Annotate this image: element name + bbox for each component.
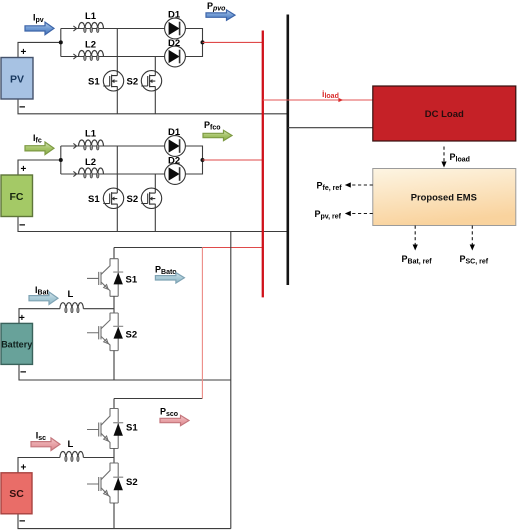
wire S1 drain (FC) — [116, 146, 118, 193]
svg-text:L2: L2 — [85, 157, 96, 168]
transistor S1 (SC) — [87, 409, 123, 449]
svg-text:S1: S1 — [88, 77, 100, 88]
wire L2 branch (FC) — [61, 173, 165, 175]
wire inductor to half-bridge node (SC) — [83, 457, 114, 459]
node PV output junction — [201, 40, 205, 44]
wire S2 source to rail (FC) — [154, 204, 156, 232]
node FC input junction — [59, 158, 63, 162]
svg-text:PSC, ref: PSC, ref — [460, 254, 489, 266]
wire D1/D2 cathodes to output node (FC) — [185, 146, 202, 174]
svg-text:L1: L1 — [85, 11, 97, 22]
svg-text:IBat: IBat — [35, 285, 49, 297]
wire FC output to DC bus (red) — [203, 159, 263, 161]
svg-text:SC: SC — [9, 488, 24, 500]
svg-text:DC Load: DC Load — [425, 109, 464, 120]
svg-text:D2: D2 — [168, 155, 180, 166]
svg-text:Ifc: Ifc — [33, 133, 42, 145]
diode D2 (FC) — [165, 164, 186, 185]
wire S2 drain (FC) — [154, 174, 156, 193]
wire top rail to S1 (SC) — [113, 399, 115, 409]
block Proposed EMS — [373, 169, 516, 226]
wire battery negative rail — [19, 364, 231, 380]
wire inductor to half-bridge node (battery) — [83, 308, 114, 310]
svg-text:Ppv, ref: Ppv, ref — [315, 209, 342, 221]
svg-text:D1: D1 — [168, 10, 181, 21]
wire S2 source to rail (PV) — [154, 86, 156, 114]
svg-text:D1: D1 — [168, 127, 181, 138]
inductor L1 (FC) — [79, 140, 104, 150]
svg-text:Pfco: Pfco — [204, 120, 221, 132]
wire FC+ to input node — [18, 160, 61, 175]
wire L2 branch — [61, 56, 165, 58]
svg-text:L1: L1 — [85, 129, 97, 140]
svg-text:iload: iload — [322, 89, 339, 100]
arrow PBato — [155, 273, 184, 283]
block DC Load — [373, 86, 516, 141]
svg-text:S2: S2 — [126, 330, 138, 341]
transistor S2 (SC) — [87, 463, 123, 503]
svg-text:S1: S1 — [88, 194, 100, 205]
wire top rail to S1 (battery) — [113, 248, 115, 259]
arrow Ifc — [25, 142, 54, 155]
svg-text:PV: PV — [10, 74, 24, 86]
wire S1 to node (SC) — [113, 449, 115, 464]
transistor S2 (battery) — [87, 313, 123, 351]
arrow IBat — [29, 292, 58, 305]
svg-text:Isc: Isc — [36, 431, 46, 443]
inductor L2 (PV) — [79, 51, 104, 61]
wire PV negative rail — [18, 99, 288, 114]
wire S1 source to rail (FC) — [116, 204, 118, 232]
wire black bus to DC Load — [288, 127, 373, 129]
svg-text:D2: D2 — [168, 38, 180, 49]
svg-text:PBato: PBato — [155, 264, 177, 276]
inductor L2 (FC) — [79, 168, 104, 178]
wire L1 branch (FC) — [61, 145, 165, 147]
svg-text:S1: S1 — [126, 275, 138, 286]
arrow Pfe,ref (dashed, left) — [350, 184, 373, 186]
svg-text:Ppvo: Ppvo — [207, 1, 226, 13]
svg-text:+: + — [21, 47, 27, 58]
diode D2 (PV) — [165, 46, 186, 67]
svg-text:Battery: Battery — [1, 340, 32, 350]
node FC output junction — [201, 158, 205, 162]
svg-text:Proposed EMS: Proposed EMS — [411, 192, 477, 203]
arrow Pfco — [203, 130, 232, 140]
arrow Pload (dashed) — [443, 147, 445, 163]
source SC — [1, 473, 32, 514]
wire S2 to bottom rail (battery) — [113, 351, 115, 380]
svg-text:L: L — [68, 439, 74, 450]
transistor S1 (battery) — [87, 259, 123, 297]
svg-text:−: − — [19, 516, 25, 528]
inductor L (SC) — [60, 452, 84, 462]
arrow Isc — [31, 438, 60, 451]
transistor S2 (PV) — [141, 71, 161, 91]
wire S1 to node (battery) — [113, 296, 115, 313]
transistor S1 (FC) — [103, 188, 123, 208]
diode D1 (PV) — [165, 18, 186, 39]
wire SC positive to inductor — [18, 458, 60, 473]
wire S2 to bottom rail (SC) — [113, 503, 115, 529]
node PV input junction — [59, 40, 63, 44]
wire negative tie line (vertical, joins FC/battery/SC negative rails) — [230, 232, 232, 529]
svg-text:−: − — [19, 220, 25, 232]
svg-text:S1: S1 — [126, 423, 138, 434]
svg-text:L: L — [68, 289, 74, 300]
wire input split vertical (FC) — [60, 146, 62, 174]
svg-text:Pfe, ref: Pfe, ref — [317, 181, 343, 193]
wire battery top rail to red bus (red) — [202, 247, 262, 249]
svg-text:−: − — [20, 367, 26, 379]
svg-text:−: − — [19, 102, 25, 114]
svg-text:S2: S2 — [127, 77, 139, 88]
arrow Psco — [160, 415, 189, 425]
source PV — [1, 58, 33, 100]
wire S1 drain (PV) — [116, 29, 118, 76]
wire PV output to DC bus (red) — [203, 41, 263, 43]
svg-text:+: + — [21, 463, 27, 474]
wire D1/D2 cathodes to output node — [185, 29, 202, 57]
wire input split vertical — [60, 29, 62, 57]
svg-text:Ipv: Ipv — [33, 13, 44, 25]
wire iload to DC Load (red) — [263, 99, 373, 101]
wire S1 source to rail (PV) — [116, 86, 118, 114]
svg-text:+: + — [21, 164, 27, 175]
wire battery top rail — [114, 247, 202, 249]
bus DC positive (red) — [262, 31, 264, 298]
svg-text:S2: S2 — [127, 194, 139, 205]
transistor S1 (PV) — [103, 71, 123, 91]
wire battery positive to inductor — [19, 309, 60, 324]
arrow Ppv,ref (dashed, left) — [350, 213, 373, 215]
wire L1 branch — [61, 28, 165, 30]
diode D1 (FC) — [165, 136, 186, 157]
source Battery — [1, 323, 33, 364]
wire SC negative rail — [18, 514, 231, 529]
svg-text:FC: FC — [10, 191, 24, 203]
arrow PBat,ref (dashed, down) — [414, 226, 416, 246]
svg-text:Pload: Pload — [450, 152, 470, 164]
transistor S2 (FC) — [141, 188, 161, 208]
svg-text:L2: L2 — [85, 40, 96, 51]
svg-text:S2: S2 — [126, 477, 138, 488]
svg-text:+: + — [19, 313, 25, 324]
wire PV+ to input node — [18, 42, 61, 57]
arrow PSC,ref (dashed, down) — [471, 226, 473, 246]
wire FC negative rail — [18, 217, 288, 232]
inductor L (battery) — [60, 303, 84, 313]
inductor L1 (PV) — [79, 23, 104, 33]
source FC — [1, 175, 33, 217]
bus DC negative (black) — [286, 15, 289, 286]
svg-text:PBat, ref: PBat, ref — [402, 254, 433, 266]
svg-text:Psco: Psco — [160, 407, 178, 419]
arrow Ppvo — [206, 10, 235, 20]
wire SC top rail — [114, 398, 202, 400]
wire battery/SC red tie line (vertical) — [201, 248, 203, 399]
arrow Ipv — [25, 22, 54, 35]
wire S2 drain (PV) — [154, 57, 156, 76]
